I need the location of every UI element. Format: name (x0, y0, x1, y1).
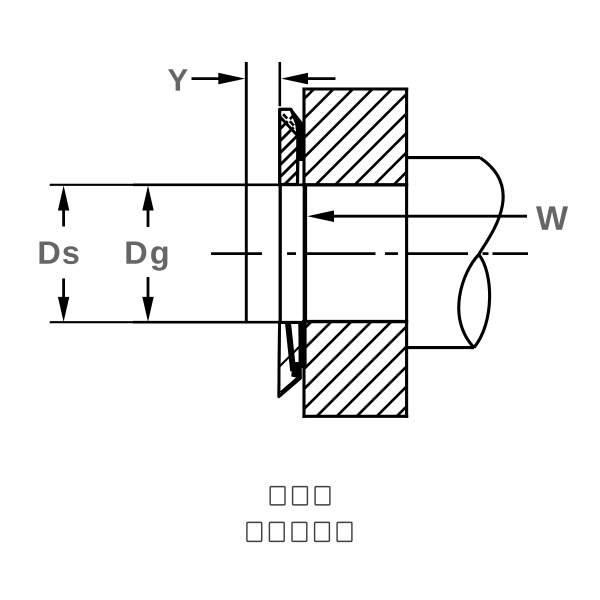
hatching lower block (208, 313, 500, 425)
centerline (dash-dot) (211, 252, 528, 255)
Y dim arrow left (192, 77, 222, 80)
Y dim extension line left (245, 62, 248, 323)
component right edge (405, 88, 408, 418)
bore top edge (302, 183, 408, 186)
ring upper mid dashes (283, 114, 294, 125)
bowed ring upper section (216, 100, 381, 193)
ring upper under-channel edge (280, 117, 297, 135)
extension line bottom (Ds/Dg) (50, 321, 133, 323)
missing-glyph text row 2 (247, 522, 352, 541)
ring upper edge-face channel (281, 112, 296, 127)
label Dg (126, 241, 146, 263)
Y dim arrow right (306, 77, 336, 80)
Dg arrow down (147, 277, 150, 299)
Ds arrow down (62, 279, 65, 300)
ring silhouette line through shaft region (279, 109, 282, 397)
missing-glyph text row 1 (270, 487, 330, 505)
extension line top (Ds/Dg) (50, 184, 133, 186)
ring lower mid band (288, 323, 293, 371)
shaft top edge (407, 156, 480, 159)
retained component upper section outline (302, 87, 408, 90)
bowed ring lower section (241, 314, 332, 405)
Dg arrow up (147, 208, 150, 227)
Y dim extension line right (278, 62, 281, 106)
shaft break curve (S) (459, 158, 503, 348)
label Ds (39, 241, 59, 263)
label Y (168, 69, 188, 90)
label W (536, 206, 568, 229)
ring lower face edge near tip (281, 377, 299, 392)
component left face line through shaft region (303, 186, 307, 320)
retained component lower section outline (302, 320, 408, 323)
ring upper inner edge merging with component face (292, 111, 305, 127)
Ds arrow up (62, 208, 65, 227)
shaft break curve (lens right) (474, 255, 490, 348)
hatching upper block (210, 81, 498, 193)
ring lower convergence (291, 362, 302, 378)
shaft bottom edge (407, 346, 474, 349)
ring lower inner edge merging with component face (299, 322, 307, 368)
W dim arrow (330, 215, 527, 218)
